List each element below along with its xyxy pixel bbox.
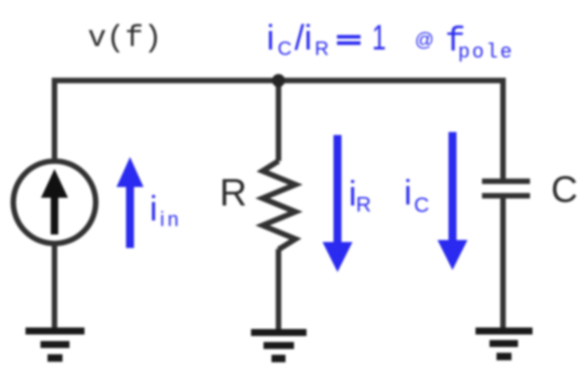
svg-text:R: R bbox=[315, 38, 329, 60]
svg-text:C: C bbox=[414, 194, 429, 217]
svg-text:v(f): v(f) bbox=[88, 21, 162, 56]
svg-text:/i: /i bbox=[295, 19, 313, 58]
svg-text:R: R bbox=[220, 173, 247, 215]
svg-text:in: in bbox=[160, 209, 182, 231]
svg-text:R: R bbox=[356, 194, 371, 217]
svg-text:C: C bbox=[551, 169, 578, 210]
svg-text:@: @ bbox=[415, 30, 434, 51]
svg-text:i: i bbox=[404, 174, 412, 213]
svg-text:C: C bbox=[278, 38, 292, 60]
svg-text:i: i bbox=[150, 190, 158, 229]
svg-text:pole: pole bbox=[458, 42, 514, 65]
svg-text:1: 1 bbox=[372, 19, 386, 58]
svg-text:i: i bbox=[267, 19, 275, 58]
